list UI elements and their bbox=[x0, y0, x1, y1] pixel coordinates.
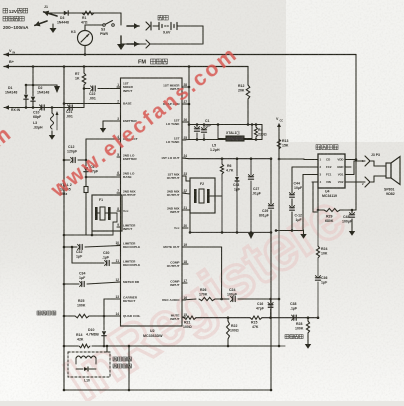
wire F1 bottom bbox=[64, 234, 113, 236]
IC U2 pin 1 bbox=[117, 86, 121, 88]
battery B1 9.6V bbox=[153, 25, 159, 27]
varactor C6 bbox=[85, 160, 87, 166]
wire pin21 drop bbox=[182, 209, 190, 211]
U4 pin VO2 bbox=[345, 181, 351, 183]
capacitor C32 bbox=[64, 246, 77, 248]
wire RX to C22 bbox=[83, 89, 85, 108]
IC U2 pin 14 bbox=[117, 315, 121, 317]
resistor R22 drop bbox=[227, 318, 229, 321]
U4 pin 2 bbox=[312, 166, 318, 168]
label audio amp bbox=[316, 145, 321, 150]
resistor R15 bbox=[250, 316, 262, 319]
wire R13 to audio bbox=[279, 158, 304, 160]
IC U2 pin 4 bbox=[117, 138, 121, 140]
wire pin19 mute out bbox=[182, 246, 222, 248]
wire bbox=[48, 12, 100, 14]
IC U2 pin 24 bbox=[182, 157, 186, 159]
connector P2 lower bbox=[146, 40, 150, 48]
wire x189 feed bbox=[188, 67, 190, 140]
signal arrow bbox=[127, 25, 139, 27]
capacitor C12b bbox=[290, 207, 295, 209]
label volume control bbox=[285, 335, 289, 339]
capacitor C43 electrolytic bbox=[236, 159, 238, 176]
IC U2 pin 11 bbox=[117, 262, 121, 264]
capacitor C38 bbox=[293, 315, 295, 320]
capacitor C48 bbox=[351, 210, 353, 213]
resistor R26 bbox=[199, 297, 215, 300]
wire pin4 feedback bbox=[313, 181, 318, 183]
wire battery return bbox=[202, 26, 204, 44]
IC U2 pin 13 bbox=[117, 298, 121, 300]
long vertical x271 bbox=[270, 232, 272, 390]
IC U2 pin 3 bbox=[117, 120, 121, 122]
IC U2 pin 22 bbox=[182, 192, 186, 194]
capacitor C22 bbox=[83, 85, 85, 89]
IC U2 pin 25 bbox=[182, 139, 186, 141]
IC U2 pin 21 bbox=[182, 209, 186, 211]
wire pin20 stub bbox=[182, 227, 188, 229]
signal arrow lower bbox=[127, 43, 139, 45]
U4 pin VO1 bbox=[345, 174, 351, 176]
ground arrow audio bbox=[303, 230, 305, 234]
speaker SP801 bbox=[386, 163, 391, 178]
capacitor C27 bbox=[250, 159, 252, 175]
filter F1 box bbox=[92, 195, 122, 231]
battery label bbox=[158, 15, 163, 20]
junction lamp to Vin bbox=[84, 53, 87, 56]
wire xtal2 down bbox=[85, 197, 87, 235]
wire pin28 bbox=[182, 86, 189, 88]
resistor R14 bbox=[64, 345, 78, 347]
capacitor C10 bbox=[41, 105, 43, 110]
IC U2 pin 9 bbox=[117, 226, 121, 228]
IC U2 pin 19 bbox=[182, 246, 186, 248]
IC U2 pin 10 bbox=[117, 244, 121, 246]
audio amp U4 body bbox=[318, 154, 345, 188]
wire pin2 bbox=[64, 103, 121, 105]
lamp K3 bbox=[78, 31, 93, 46]
IC U2 pin 5 bbox=[117, 156, 121, 158]
wire pin23 to F2 top bbox=[182, 175, 186, 177]
resistor R25 bbox=[64, 315, 75, 317]
U4 pin 1 bbox=[312, 159, 318, 161]
wire bbox=[85, 24, 103, 26]
capacitor C1 bbox=[203, 125, 205, 129]
crystal XTAL1 bbox=[226, 136, 244, 141]
crystal XTAL2 bbox=[85, 177, 87, 186]
section bus y158.7 bbox=[182, 157, 189, 160]
IC U2 pin 8 bbox=[117, 210, 121, 212]
wire pin13 drop bbox=[104, 298, 121, 300]
resistor R24 bbox=[316, 246, 319, 258]
connector J2 bbox=[146, 22, 150, 30]
ground C48 bbox=[351, 227, 353, 231]
section bus2 y232.4 bbox=[190, 231, 271, 233]
IC U2 pin 2 bbox=[117, 103, 121, 105]
ground R28 bbox=[307, 340, 309, 344]
U4 pin 4 bbox=[312, 181, 318, 183]
capacitor C23 tank bbox=[196, 125, 198, 128]
wire L10 to bus bbox=[106, 346, 108, 352]
bus line lower bbox=[104, 345, 279, 347]
U4 pin VDD bbox=[345, 159, 351, 161]
watermark red partial left bbox=[0, 121, 17, 162]
wire pin18 stub bbox=[182, 263, 188, 265]
wire Vdd drop bbox=[355, 55, 357, 211]
resistor R1 bbox=[82, 11, 94, 15]
vertical x129 bbox=[128, 346, 130, 390]
diode D1 bbox=[25, 85, 27, 94]
wire bbox=[100, 12, 121, 14]
capacitor C21 bbox=[69, 105, 71, 110]
signal arrow down bbox=[54, 86, 60, 93]
connector arrow J4 bbox=[35, 21, 47, 25]
resistor R21 bbox=[184, 316, 196, 319]
IC U2 pin 18 bbox=[182, 263, 186, 265]
bottom rail bbox=[64, 389, 271, 391]
wire pin27 bbox=[182, 103, 189, 105]
IC U2 pin 16 bbox=[182, 299, 186, 301]
label squelch bbox=[37, 311, 41, 315]
ground L3 bbox=[51, 131, 53, 135]
resistor R12 bbox=[247, 67, 249, 86]
filter F2 box bbox=[190, 178, 215, 213]
resistor R13 bbox=[277, 139, 280, 149]
quad coil box L10 bbox=[68, 352, 110, 377]
IC U2 pin 12 bbox=[117, 281, 121, 283]
wire return to ground bbox=[121, 43, 146, 45]
label power note bbox=[3, 8, 8, 13]
U4 pin 3 bbox=[312, 174, 318, 176]
IC U2 pin 28 bbox=[182, 86, 186, 88]
ground bus y230 bbox=[276, 230, 303, 232]
zener D10 bbox=[103, 316, 105, 330]
wire pin6 bbox=[86, 176, 121, 178]
ground stub arrow bbox=[52, 24, 54, 28]
wire pin3 drop bbox=[303, 174, 312, 176]
ground pin3 emitter bbox=[103, 120, 121, 122]
resistor R4 bbox=[255, 125, 257, 128]
arrow tuning bbox=[56, 113, 58, 130]
resistor R28 bbox=[307, 318, 309, 321]
resistor R7 bbox=[83, 67, 85, 74]
IC U2 pin 17 bbox=[182, 282, 186, 284]
capacitor C16 bbox=[270, 299, 272, 303]
label quadrature coil bbox=[113, 357, 117, 361]
IC U2 pin 20 bbox=[182, 227, 186, 229]
diode D3 bbox=[64, 11, 68, 15]
wire left bus bbox=[63, 67, 65, 391]
watermark red elecfans bbox=[46, 42, 242, 203]
IC U2 pin 15 bbox=[182, 316, 186, 318]
tank right end bbox=[261, 125, 263, 140]
resistor R29 bbox=[324, 208, 340, 211]
wire pin16 rec audio bbox=[182, 299, 196, 300]
diode D2 bbox=[32, 85, 34, 96]
ground arrow on bus2 bbox=[248, 233, 254, 239]
capacitor C30 bbox=[72, 262, 104, 264]
tank bottom wire bbox=[182, 139, 189, 142]
watermark large pale text bbox=[54, 182, 357, 406]
U4 pin GND bbox=[345, 166, 351, 168]
capacitor C24 bbox=[232, 296, 234, 301]
wire pin4 collect bbox=[86, 138, 121, 140]
IC U2 pin 23 bbox=[182, 175, 186, 177]
wire pin22 from F2 bbox=[182, 193, 190, 194]
IC U2 pin 6 bbox=[117, 174, 121, 176]
IC U2 pin 26 bbox=[182, 121, 186, 123]
tank top wire bbox=[182, 121, 189, 123]
inductor L3 bbox=[51, 108, 53, 114]
switch S3 PWR bbox=[103, 24, 106, 27]
wire amp in from R13 bbox=[304, 159, 312, 161]
resistor R6 bbox=[221, 159, 223, 164]
bus y317.7 mute input bbox=[182, 316, 184, 319]
ground arrow below switch bbox=[120, 36, 122, 44]
grey chain x318 bbox=[317, 209, 320, 212]
wire diode sub-bus bbox=[32, 67, 34, 86]
capacitor C29 bbox=[270, 159, 272, 204]
IC U2 pin 7 bbox=[117, 192, 121, 194]
capacitor C34 bbox=[64, 283, 79, 285]
IC U2 body bbox=[121, 78, 183, 326]
capacitor C12 bbox=[64, 159, 70, 161]
wire F2 right stub bbox=[210, 195, 218, 197]
capacitor C36 bbox=[315, 277, 320, 279]
wire pin17 stub bbox=[182, 282, 187, 284]
IC U2 pin 27 bbox=[182, 103, 186, 105]
grey vertical x276 volume feed bbox=[278, 159, 280, 230]
connector arrow J1 bbox=[44, 12, 57, 16]
